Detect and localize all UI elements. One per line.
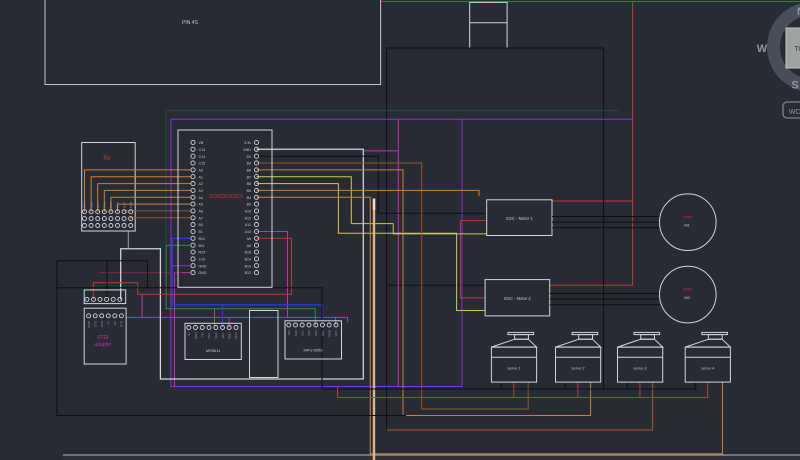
- svg-text:GND: GND: [199, 264, 207, 268]
- svg-text:B14: B14: [245, 258, 251, 262]
- FTDI adapter pins: [87, 314, 91, 318]
- svg-text:B4: B4: [247, 196, 251, 200]
- svg-text:TX: TX: [107, 321, 111, 325]
- svg-text:B9: B9: [247, 162, 251, 166]
- svg-text:B0: B0: [199, 223, 203, 227]
- wire black box top: [57, 260, 148, 262]
- svg-text:W: W: [757, 43, 768, 55]
- svg-text:SCL: SCL: [221, 332, 225, 338]
- wire magenta drop MS5611: [228, 317, 230, 327]
- svg-text:3.3v: 3.3v: [199, 258, 206, 262]
- svg-text:servo 3: servo 3: [634, 366, 648, 371]
- FTDI adapter outline: [84, 308, 126, 364]
- connector J1 top box: [470, 2, 507, 48]
- svg-text:CH2: CH2: [89, 202, 93, 208]
- wire tan lead cap: [373, 199, 375, 211]
- motor M1 circle: [660, 194, 717, 251]
- wire orange Rx ch5 to MCU: [111, 197, 191, 211]
- wire brown Rx ch8: [131, 217, 191, 220]
- svg-text:TO: TO: [794, 46, 800, 53]
- wire black M1 phase 1: [552, 216, 660, 218]
- svg-text:SDA: SDA: [234, 333, 238, 339]
- svg-text:CH6: CH6: [116, 202, 120, 208]
- svg-text:GND: GND: [228, 332, 232, 340]
- svg-text:C15: C15: [199, 162, 206, 166]
- svg-text:CH5: CH5: [109, 202, 113, 208]
- wire red bus feed: [337, 387, 339, 398]
- svg-text:A6: A6: [199, 210, 203, 214]
- bottom status strip: [63, 456, 800, 460]
- sensor MS5611 outline: [185, 323, 241, 359]
- wire black M2 phase 3: [550, 304, 660, 306]
- svg-text:CTS: CTS: [94, 321, 98, 327]
- svg-text:XDA: XDA: [214, 333, 218, 339]
- wire magenta riser: [397, 119, 399, 386]
- wire dim magenta FTDI: [99, 272, 182, 274]
- svg-text:CH4: CH4: [103, 202, 107, 208]
- FTDI strip pins: [85, 297, 89, 301]
- svg-text:B5: B5: [247, 189, 251, 193]
- svg-text:C13: C13: [199, 148, 206, 152]
- wire orange Rx ch2 to MCU: [91, 177, 191, 212]
- wire black 5V to ESC1: [257, 156, 487, 213]
- svg-text:A7: A7: [199, 216, 203, 220]
- svg-text:CH8: CH8: [129, 202, 133, 208]
- wire rust bus to servo3: [387, 382, 653, 430]
- wire purple gnd ring: [171, 119, 462, 386]
- wire red servo bus: [338, 397, 709, 399]
- wire purple top segment: [171, 118, 633, 120]
- wire black M1 phase 2: [552, 221, 660, 223]
- viewcube face: [786, 28, 800, 68]
- svg-text:B3: B3: [247, 203, 251, 207]
- wire red servo2 pin: [577, 382, 579, 397]
- svg-text:B1: B1: [199, 230, 203, 234]
- svg-text:3.3v: 3.3v: [244, 141, 251, 145]
- svg-text:PS: PS: [201, 333, 205, 337]
- svg-text:ADO: ADO: [294, 329, 298, 336]
- svg-text:A9: A9: [247, 237, 251, 241]
- wire orange B8 to servo2: [257, 170, 591, 416]
- svg-text:B8: B8: [247, 169, 251, 173]
- wire magenta sensor line: [126, 317, 347, 322]
- wire red top power rail: [381, 1, 800, 3]
- MCU left pins: [191, 140, 195, 144]
- svg-text:CH3: CH3: [96, 202, 100, 208]
- svg-text:A5: A5: [199, 203, 203, 207]
- wire black servo4 pin: [694, 382, 696, 389]
- wire black to ESC2: [387, 284, 486, 286]
- wire brown B9 to servo1: [257, 163, 529, 409]
- wire black M1 phase 3: [552, 227, 660, 229]
- svg-text:B7: B7: [247, 175, 251, 179]
- svg-text:5v: 5v: [187, 332, 191, 336]
- svg-text:B15: B15: [245, 251, 251, 255]
- wire orange Rx ch3 to MCU: [98, 184, 191, 212]
- wire black servo1 pin: [500, 382, 502, 389]
- svg-text:S: S: [791, 80, 798, 92]
- FTDI header strip: [84, 290, 126, 304]
- wire magenta FTDI riser: [141, 294, 143, 317]
- svg-text:ESC - Motor 1: ESC - Motor 1: [506, 216, 533, 221]
- wire black battery loop: [387, 48, 604, 430]
- servo 3: [618, 332, 663, 382]
- svg-text:A11: A11: [245, 223, 251, 227]
- wire white gnd net: [121, 149, 364, 379]
- svg-text:CH7: CH7: [122, 202, 126, 208]
- svg-text:servo 4: servo 4: [701, 366, 715, 371]
- svg-text:GND: GND: [328, 329, 332, 337]
- svg-text:Motor: Motor: [683, 215, 693, 219]
- wire black M2 phase 1: [550, 293, 660, 295]
- svg-text:MPU-6050: MPU-6050: [303, 348, 323, 353]
- wire blue drop MS5611: [222, 305, 224, 328]
- svg-text:A2: A2: [199, 182, 203, 186]
- svg-text:FTDI: FTDI: [97, 335, 108, 341]
- viewcube WCS button: [783, 102, 800, 118]
- receiver pin row2: [83, 217, 87, 221]
- wire tan battery lead: [373, 199, 375, 460]
- svg-text:CH1: CH1: [83, 202, 87, 208]
- svg-text:A1: A1: [199, 175, 203, 179]
- wire black servo3 pin: [626, 382, 628, 389]
- svg-text:B12: B12: [245, 271, 251, 275]
- svg-text:VCC: VCC: [207, 332, 211, 339]
- svg-text:servo 2: servo 2: [572, 366, 586, 371]
- wire yellow B6 to ESC2: [257, 184, 486, 311]
- svg-text:INT: INT: [287, 330, 291, 335]
- servo 2: [556, 332, 601, 382]
- svg-text:5V: 5V: [247, 155, 252, 159]
- wire red servo3 pin: [639, 382, 641, 397]
- svg-text:XDA: XDA: [307, 330, 311, 336]
- ESC1 outline: [487, 200, 552, 236]
- svg-text:GND: GND: [243, 148, 251, 152]
- wire black drop to FTDI strip: [106, 261, 108, 300]
- svg-text:Motor: Motor: [683, 288, 693, 292]
- wire magenta drop MPU: [335, 317, 337, 325]
- wire green riser top: [165, 110, 167, 245]
- wire purple left riser: [170, 119, 172, 266]
- svg-text:VCC: VCC: [334, 329, 338, 336]
- svg-text:B13: B13: [245, 264, 251, 268]
- svg-text:SCL: SCL: [321, 330, 325, 336]
- svg-text:A12: A12: [245, 216, 251, 220]
- wire red servo4 pin: [707, 382, 709, 397]
- ESC2 outline: [485, 280, 550, 316]
- wire magenta A11 stub: [257, 232, 288, 318]
- MCU STM32F103C8 outline: [178, 130, 272, 287]
- wire magenta gnd riser: [175, 273, 191, 387]
- wire black servo bus: [322, 388, 698, 390]
- svg-text:A10: A10: [245, 230, 251, 234]
- wire orange Rx ch6 to MCU: [118, 204, 191, 212]
- wire red FTDI serial: [93, 238, 291, 299]
- svg-text:PIN 4S: PIN 4S: [182, 20, 199, 26]
- svg-text:STM32F103C8: STM32F103C8: [209, 194, 243, 200]
- receiver pin row3: [83, 224, 87, 228]
- white box between sensors: [250, 311, 279, 378]
- motor M2 circle: [660, 266, 717, 323]
- servo 1: [491, 332, 536, 382]
- wire yellow B7 to ESC1: [257, 177, 487, 234]
- wire green SCL: [166, 245, 315, 325]
- wire gray Rx stub: [127, 231, 129, 249]
- svg-text:C14: C14: [199, 155, 206, 159]
- svg-text:A0: A0: [199, 169, 203, 173]
- servo 4: [685, 332, 730, 382]
- svg-text:RST: RST: [199, 251, 207, 255]
- svg-text:WCS: WCS: [789, 109, 800, 116]
- svg-text:A4: A4: [199, 196, 203, 200]
- svg-text:B6: B6: [247, 182, 251, 186]
- svg-text:M1: M1: [684, 223, 690, 228]
- wire red ESC1 feed: [552, 200, 633, 202]
- svg-text:servo 1: servo 1: [507, 366, 521, 371]
- svg-text:B11: B11: [199, 244, 205, 248]
- viewcube ring: [774, 9, 800, 86]
- svg-text:SDA: SDA: [314, 330, 318, 336]
- wire orange Rx ch4 to MCU: [104, 190, 191, 211]
- svg-text:GND: GND: [87, 320, 91, 328]
- MCU right pins: [254, 140, 258, 144]
- svg-text:VB: VB: [199, 141, 204, 145]
- sensor MPU-6050 outline: [285, 321, 342, 359]
- receiver Rx outline: [82, 143, 136, 232]
- wire green drop MS5611: [214, 309, 216, 328]
- svg-text:VCC: VCC: [100, 320, 104, 327]
- wire magenta branch: [363, 150, 398, 152]
- wire black left drop to bus: [57, 261, 406, 416]
- wire orange Rx ch1 to MCU: [85, 170, 191, 212]
- svg-text:Rx: Rx: [103, 156, 110, 162]
- wire brown Rx ch7: [124, 210, 191, 213]
- svg-text:GND: GND: [199, 271, 207, 275]
- svg-text:GND: GND: [194, 332, 198, 340]
- svg-text:ESC - Motor 2: ESC - Motor 2: [504, 296, 531, 301]
- wire orange B4 to servo4: [257, 197, 723, 453]
- wire red ESC1-ESC2 link: [460, 221, 486, 298]
- svg-text:A8: A8: [247, 244, 251, 248]
- svg-text:A15: A15: [245, 210, 251, 214]
- MPU pins: [287, 323, 291, 327]
- connector J1 divider: [470, 22, 507, 24]
- wire black servo2 pin: [564, 382, 566, 389]
- window bottom edge: [63, 454, 800, 456]
- wire red servo1 pin: [513, 382, 515, 397]
- wire black box right: [147, 261, 149, 288]
- svg-text:RX: RX: [113, 321, 117, 325]
- svg-text:MS5611: MS5611: [206, 348, 221, 353]
- wire orange B5 stub: [257, 190, 480, 196]
- wire black under MCU right: [272, 288, 322, 389]
- battery PIN4S outline: [45, 0, 381, 85]
- svg-text:M2: M2: [684, 295, 690, 300]
- wire blue SDA: [172, 238, 322, 325]
- svg-text:B10: B10: [199, 237, 205, 241]
- wire black box bottom: [57, 287, 148, 289]
- MS5611 pins: [187, 326, 191, 330]
- wire black M2 phase 2: [550, 298, 660, 300]
- svg-text:A3: A3: [199, 189, 203, 193]
- svg-text:XCL: XCL: [301, 330, 305, 336]
- svg-text:adapter: adapter: [95, 342, 112, 348]
- wire black under MCU left: [148, 287, 179, 289]
- svg-text:DTR: DTR: [120, 320, 124, 327]
- wire red drop to ESC2: [550, 2, 633, 286]
- receiver pin row1: [83, 210, 87, 214]
- wire dark green top line: [166, 109, 620, 111]
